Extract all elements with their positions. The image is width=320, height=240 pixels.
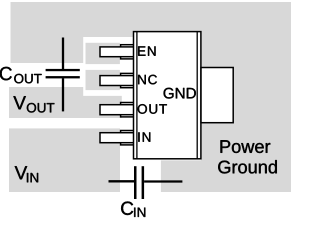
label VOUT	[13, 96, 26, 109]
label Power Ground line 2	[218, 160, 277, 173]
label pin OUT	[138, 104, 167, 114]
capacitor COUT bottom wire	[62, 78, 64, 111]
IC U1 body outline	[134, 32, 201, 159]
pin 4 IN lead	[121, 131, 134, 145]
label GND	[164, 88, 196, 99]
label COUT	[0, 67, 12, 80]
capacitor COUT bottom plate	[46, 76, 80, 78]
node EN trace copper patch	[86, 43, 120, 64]
capacitor CIN left wire	[109, 180, 135, 182]
label pin NC	[138, 75, 157, 85]
IC U1 inner left line	[136, 32, 138, 159]
node ground pour: top copper band	[11, 2, 292, 37]
capacitor COUT top plate	[46, 69, 80, 71]
label pin EN	[138, 46, 155, 55]
label VIN	[15, 166, 28, 179]
node NC trace copper patch	[86, 70, 120, 90]
node VIN plane block	[9, 128, 120, 192]
capacitor CIN right plate	[142, 166, 145, 199]
node VOUT plane block	[9, 87, 122, 118]
pin 3 OUT lead	[121, 103, 134, 117]
capacitor COUT top wire	[62, 38, 64, 70]
pin 2 NC lead	[121, 73, 134, 87]
label pin IN	[138, 132, 150, 141]
label CIN	[121, 202, 133, 215]
node power ground plane right of and under IC	[161, 2, 291, 192]
pin 1 EN lead	[121, 45, 134, 59]
IC U1 inner right line	[196, 32, 198, 159]
node ground pour: top-left block (COUT top terminal)	[11, 2, 84, 63]
capacitor CIN right wire	[144, 180, 182, 182]
IC U1 power tab	[201, 68, 233, 123]
capacitor CIN left plate	[134, 166, 137, 199]
label Power Ground line 1	[220, 140, 270, 153]
